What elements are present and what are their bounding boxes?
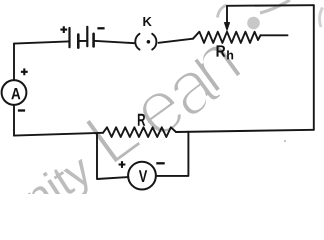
rheostat slider arrowhead [224,22,230,31]
rheostat Rh zigzag [193,32,261,43]
label voltmeter minus [156,162,164,164]
label Rh h subscript [227,50,233,59]
wire battery to key [94,41,135,43]
voltmeter V1 [128,162,156,190]
label K [143,17,151,26]
label ammeter plus [21,68,28,75]
wire top-left horizontal [14,41,69,43]
rheostat open-end stub wire [261,34,288,36]
ammeter letter A [11,88,20,99]
ammeter A1 [2,80,27,105]
battery inter-cell wire [78,40,87,42]
voltmeter letter V [139,170,147,182]
wire bottom horizontal right of R [176,130,314,132]
rheostat slider wire vertical [226,6,228,24]
resistor R zigzag [103,127,176,137]
wire voltmeter branch left [97,133,128,179]
wire left vertical to ammeter [13,44,15,81]
key K left contact arc [135,34,139,50]
label battery plus [60,26,67,33]
battery cell plate short 1 [77,35,80,48]
battery cell plate short 2 [92,34,95,47]
wire ammeter to bottom-left corner [13,105,15,136]
label R [138,114,145,126]
label Rh R [217,45,226,56]
paper speck [284,140,286,142]
wire bottom horizontal left of R [14,133,103,136]
key K right contact arc [152,34,156,50]
label ammeter minus [18,109,25,111]
battery cell plate long 2 [86,27,88,46]
wire key to rheostat [159,39,194,43]
battery cell plate long 1 [68,28,70,47]
wire top-right horizontal [227,4,314,7]
wire right vertical [313,5,315,130]
wire voltmeter branch right [156,132,188,176]
label voltmeter plus [119,161,126,168]
label battery minus [97,27,104,29]
key K plug dot [147,40,151,44]
